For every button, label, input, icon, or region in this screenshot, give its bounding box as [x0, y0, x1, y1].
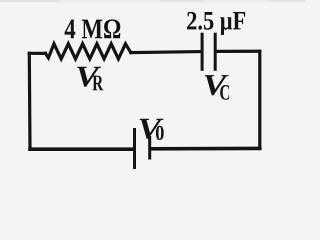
- wire right vertical: [258, 51, 261, 148]
- label V_0: [140, 119, 164, 139]
- battery V0 short plate (right): [148, 138, 151, 159]
- resistor 4 Mohm zigzag: [46, 44, 131, 59]
- capacitor C right plate: [214, 34, 217, 69]
- label V_R: [77, 67, 101, 87]
- wire top-left segment: [29, 52, 45, 55]
- wire bottom-left segment: [30, 147, 133, 151]
- label 2.5 uF: [187, 12, 245, 35]
- wire left vertical: [28, 53, 32, 149]
- label 4 Mohm: [65, 19, 121, 38]
- wire capacitor to top-right corner: [217, 50, 260, 53]
- faint scan smudge band along top edge: [0, 0, 305, 3]
- wire resistor to capacitor: [131, 52, 200, 53]
- capacitor C left plate: [201, 34, 204, 69]
- wire bottom-right segment: [151, 147, 260, 151]
- label V_C: [205, 75, 229, 95]
- battery V0 long plate (left): [133, 130, 136, 168]
